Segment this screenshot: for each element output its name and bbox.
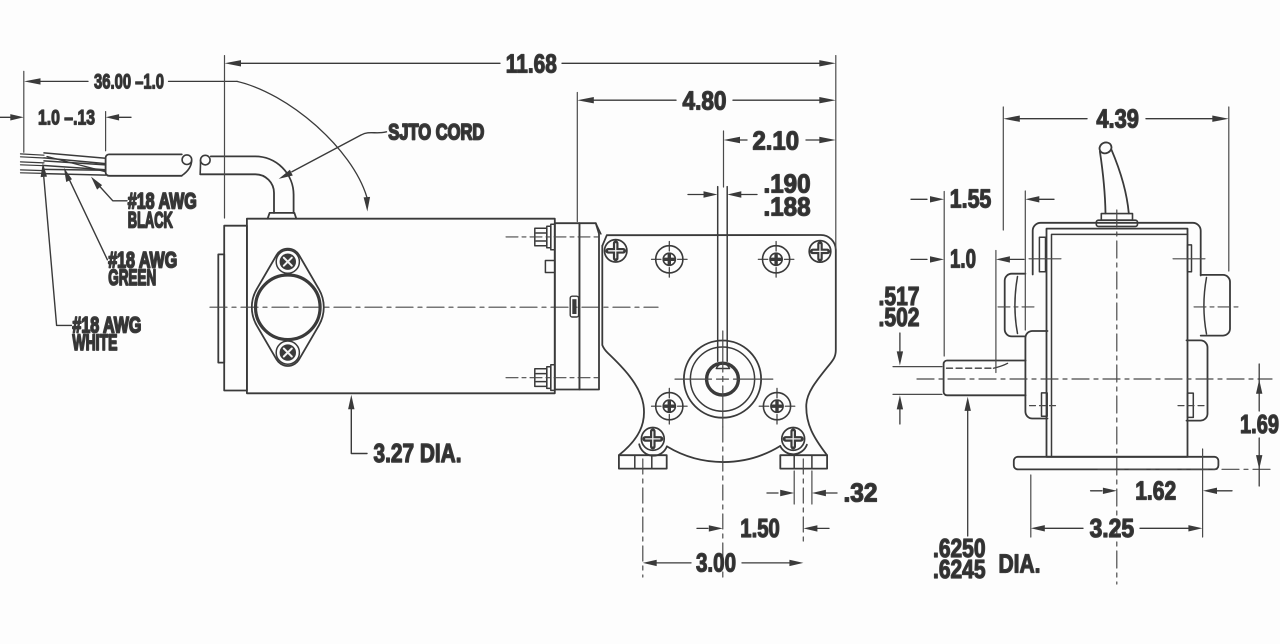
dim 1.55 <box>911 184 1054 214</box>
side bolt tab bottom left <box>1042 393 1048 416</box>
wire crossing strand <box>47 157 106 172</box>
dim 36.00 -1.0 <box>24 71 370 212</box>
washer screw lower left <box>652 388 688 424</box>
extension line motor left <box>224 56 226 218</box>
side body <box>1047 229 1188 457</box>
wire white <box>44 169 106 175</box>
svg-text:.32: .32 <box>844 478 878 508</box>
flange screw bottom <box>276 341 299 364</box>
washer screw upper left <box>652 242 688 278</box>
extension lines .32 <box>794 471 812 504</box>
side body inner lines <box>1052 234 1188 456</box>
svg-text:1.69: 1.69 <box>1240 409 1279 439</box>
leader white <box>41 163 72 326</box>
washer screw upper right <box>758 242 794 278</box>
bore crosshair horizontal <box>675 378 773 380</box>
right foot <box>780 455 827 468</box>
svg-text:3.27 DIA.: 3.27 DIA. <box>374 438 462 468</box>
adapter chamfer <box>596 223 601 234</box>
cord break loop right <box>200 155 210 174</box>
motor flange bore circle <box>255 275 320 340</box>
motor centerline <box>210 306 658 308</box>
side bolt tab bottom right <box>1188 393 1194 417</box>
hex bolt bottom axis <box>506 377 598 379</box>
side foot plate <box>1014 457 1219 470</box>
label #18 AWG WHITE <box>72 312 141 355</box>
slot on adapter plate <box>570 296 578 317</box>
side boss right <box>1187 340 1208 420</box>
extension line 3.25 left <box>1030 475 1032 537</box>
dim .190 .188 <box>688 169 811 222</box>
dim 4.80 <box>577 86 836 116</box>
extension lines 4.39 <box>1003 107 1229 271</box>
side bolt hidden lines bottom <box>1030 405 1209 407</box>
leader sjto cord <box>279 132 387 179</box>
side cord <box>1098 141 1129 214</box>
dim 2.10 <box>724 126 836 156</box>
side body centerline <box>1116 210 1118 584</box>
leader green <box>64 168 108 260</box>
worm centerline top <box>723 131 725 187</box>
extension line cord left <box>23 71 25 152</box>
hex bolt top <box>535 224 555 250</box>
svg-text:SJTO CORD: SJTO CORD <box>388 120 484 145</box>
extension line jacket end <box>105 112 107 151</box>
left foot <box>619 455 667 468</box>
output bore circle <box>707 363 739 395</box>
side base line extended <box>1098 468 1272 470</box>
svg-text:.188: .188 <box>764 192 811 222</box>
svg-text:1.55: 1.55 <box>950 184 992 214</box>
hex bolt bottom <box>535 365 555 391</box>
output boss inner circle <box>690 347 754 411</box>
phillips screw top right <box>809 241 831 263</box>
dim 3.27 DIA <box>348 395 461 468</box>
washer screw lower right <box>759 388 795 424</box>
phillips screw top left <box>605 240 627 262</box>
dim 11.68 <box>225 48 836 78</box>
gearbox bottom lobes and sag <box>639 444 807 462</box>
svg-text:1.50: 1.50 <box>740 513 780 543</box>
dim 3.00 <box>643 547 804 577</box>
svg-text:11.68: 11.68 <box>506 48 557 78</box>
motor body <box>247 219 555 394</box>
dim .517 .502 <box>879 281 920 424</box>
foot centerline right <box>802 459 804 541</box>
extension line gearbox right <box>835 56 837 249</box>
svg-text:36.00 –1.0: 36.00 –1.0 <box>94 71 164 94</box>
cord break loop left <box>182 155 192 176</box>
extension line adapter <box>576 93 578 222</box>
dim 1.69 <box>1240 364 1279 486</box>
label #18 AWG BLACK <box>128 189 197 233</box>
label #18 AWG GREEN <box>108 247 177 290</box>
label SJTO CORD <box>388 120 484 145</box>
side shaft <box>944 361 1026 396</box>
dim 1.50 <box>697 513 829 543</box>
cord bushing on motor <box>268 213 297 219</box>
dim 1.62 <box>1091 476 1232 506</box>
svg-text:WHITE: WHITE <box>72 330 117 355</box>
side outer plate <box>1033 223 1201 276</box>
side bolt tab top right <box>1188 245 1192 272</box>
cord elbow inner line <box>200 174 274 213</box>
keyway notch <box>716 364 729 369</box>
svg-text:4.39: 4.39 <box>1096 103 1139 133</box>
leader black <box>91 177 127 201</box>
svg-text:.6245: .6245 <box>933 554 986 584</box>
svg-text:3.00: 3.00 <box>696 547 736 577</box>
side lobe left <box>1005 274 1026 337</box>
cord elbow outer line <box>211 156 294 213</box>
shaft centerline <box>917 378 1272 380</box>
extension line 1.62 right <box>1202 449 1204 537</box>
hex bolt top axis <box>506 236 598 238</box>
wire black <box>44 153 106 164</box>
svg-text:1.0: 1.0 <box>950 244 976 274</box>
extension lines 1.55 <box>944 191 1025 356</box>
dim .6250 .6245 DIA <box>933 397 1041 584</box>
dim 3.25 <box>1031 513 1203 543</box>
side boss left <box>1025 331 1047 419</box>
svg-text:3.25: 3.25 <box>1090 513 1135 543</box>
side cord bushing <box>1096 214 1137 227</box>
dim 4.39 <box>1003 103 1229 133</box>
side bolt tab top left <box>1039 237 1045 271</box>
dim 1.0 -.13 <box>0 106 131 129</box>
motor rear sliver <box>218 254 224 362</box>
shaft flat hidden line <box>947 363 1008 368</box>
foot centerline left <box>642 459 644 577</box>
adapter plate 2 <box>579 223 599 389</box>
motor flange outline <box>252 249 324 366</box>
motor end cap <box>224 226 247 391</box>
svg-text:BLACK: BLACK <box>128 208 173 233</box>
gearbox top and right outline <box>602 235 836 455</box>
svg-text:4.80: 4.80 <box>683 86 727 116</box>
svg-text:1.62: 1.62 <box>1135 476 1176 506</box>
terminal box on motor <box>545 261 554 273</box>
cord jacket left piece <box>106 154 182 175</box>
extension lines .517 <box>893 367 942 395</box>
svg-text:GREEN: GREEN <box>108 265 156 290</box>
gearbox left outline <box>602 246 644 455</box>
extension line 1.0 <box>995 251 997 373</box>
flange screw top <box>276 250 299 273</box>
output boss outer circle <box>684 341 761 418</box>
adapter plate 1 <box>555 223 580 389</box>
dim 1.0 <box>911 244 1024 274</box>
side lobe right <box>1201 275 1230 336</box>
svg-text:.502: .502 <box>879 302 920 332</box>
svg-text:2.10: 2.10 <box>753 126 800 156</box>
worm slot lines <box>718 187 728 362</box>
phillips screw bottom left <box>641 428 664 451</box>
svg-text:1.0 –.13: 1.0 –.13 <box>38 106 95 129</box>
wire green <box>44 161 106 170</box>
side lobe axis marks <box>998 306 1238 308</box>
svg-text:DIA.: DIA. <box>999 549 1041 579</box>
side bolt axis marks top <box>1029 258 1205 260</box>
phillips screw bottom right <box>782 428 805 451</box>
dim .32 <box>767 478 878 508</box>
wire tips bare <box>21 154 45 174</box>
bore crosshair vertical <box>722 331 724 577</box>
